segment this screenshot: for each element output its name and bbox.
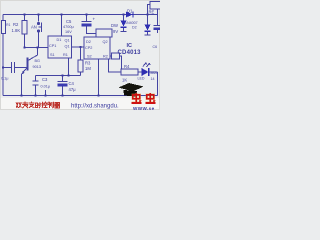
- svg-text:D1: D1: [57, 38, 62, 42]
- svg-text:CD4013: CD4013: [118, 50, 142, 56]
- wire C5 top lead: [86, 15, 88, 22]
- char 器: [55, 102, 60, 107]
- label IC2 pins: [85, 40, 108, 59]
- svg-text:BG: BG: [35, 59, 41, 63]
- svg-text:C3: C3: [42, 77, 48, 82]
- junction C5/top rail: [85, 13, 87, 15]
- svg-text:47μ: 47μ: [69, 87, 77, 92]
- svg-text:Q2: Q2: [103, 40, 108, 44]
- red logo 虫虫 (hand-drawn strokes): [131, 93, 155, 103]
- svg-text:R2: R2: [103, 55, 108, 59]
- transistor emitter with arrow: [22, 67, 28, 74]
- resistor R4: [121, 69, 138, 75]
- wire timing row: [36, 75, 81, 77]
- capacitor C4 electrolytic: [58, 81, 68, 83]
- svg-text:+: +: [93, 17, 96, 22]
- resistor R5 (box above IC2): [96, 29, 112, 37]
- svg-text:3AA: 3AA: [150, 71, 157, 75]
- black cap logo: [119, 83, 144, 92]
- transistor BG 9013 base bar: [27, 58, 29, 71]
- wire top rail right of D1: [133, 14, 158, 16]
- switch AN: [38, 23, 42, 33]
- svg-text:4700μ: 4700μ: [63, 25, 74, 29]
- junction C3/ground rail: [34, 94, 36, 96]
- svg-text:R1: R1: [63, 53, 68, 57]
- wire collector drop: [28, 48, 38, 61]
- wire D2 leads: [147, 15, 149, 35]
- LED D3: [142, 68, 149, 76]
- wire IC1 D pin to top rail: [61, 15, 63, 37]
- svg-text:9V: 9V: [113, 29, 118, 34]
- red caption 双表定时控制器 (hand-drawn strokes): [16, 102, 60, 108]
- svg-text:RE: RE: [149, 10, 155, 15]
- junction stub/ground rail: [44, 94, 46, 96]
- svg-text:0.1μ: 0.1μ: [1, 77, 8, 81]
- junction R2/top rail: [23, 13, 25, 15]
- svg-text:R4: R4: [124, 64, 130, 69]
- svg-text:http://xd.shangdu.: http://xd.shangdu.: [71, 104, 119, 110]
- svg-text:C4: C4: [69, 81, 75, 86]
- char 双: [16, 103, 21, 108]
- svg-text:16V: 16V: [65, 30, 72, 34]
- junction C4/timing wire: [61, 74, 63, 76]
- char 虫 #2: [145, 93, 155, 103]
- svg-text:D2: D2: [86, 40, 91, 44]
- wire R3 leads: [80, 58, 82, 76]
- wire left vertical rail: [2, 15, 4, 96]
- svg-text:R1: R1: [6, 23, 10, 27]
- svg-text:S1: S1: [50, 53, 55, 57]
- svg-text:AN: AN: [31, 25, 37, 30]
- junction base wire/left rail: [2, 66, 4, 68]
- svg-text:CP1: CP1: [49, 44, 56, 48]
- labels: [1, 9, 157, 93]
- char 控: [42, 102, 47, 108]
- wire C3 leads: [35, 76, 37, 96]
- svg-text:Q1: Q1: [65, 45, 70, 49]
- svg-text:R3: R3: [85, 61, 91, 66]
- svg-text:LED: LED: [138, 77, 145, 81]
- svg-text:R2: R2: [13, 22, 19, 27]
- svg-text:Q1: Q1: [65, 39, 70, 43]
- wire R5b link: [111, 56, 122, 69]
- junction AN/top rail: [37, 13, 39, 15]
- junction DW/top rail: [122, 13, 124, 15]
- junction IC1 R pin/timing wire: [67, 74, 69, 76]
- wire collector node row: [25, 47, 49, 49]
- relay RE box: [150, 2, 161, 10]
- char 时: [35, 103, 40, 108]
- capacitor C3: [33, 81, 39, 85]
- wire top rail left: [3, 14, 126, 16]
- IC box U1a: [48, 36, 72, 58]
- wire base row right of C1: [15, 67, 27, 69]
- svg-text:WWW.se: WWW.se: [133, 106, 155, 110]
- wire emitter drop: [21, 74, 23, 96]
- svg-text:IC: IC: [127, 43, 133, 49]
- wire right rail lower: [157, 72, 159, 96]
- wire IC2 S pin down: [98, 59, 100, 96]
- wire R3 tap: [80, 47, 82, 58]
- wire R4 to LED: [138, 71, 142, 73]
- zener DW: [121, 21, 127, 27]
- char 虫 #1: [131, 93, 141, 103]
- wire bottom ground rail: [3, 95, 158, 97]
- junction IC2 S pin/ground rail: [97, 94, 99, 96]
- capacitor C6: [154, 25, 161, 27]
- capacitor C5 electrolytic: [82, 21, 92, 23]
- junction IC1 D pin/top rail: [60, 13, 62, 15]
- wire stub at 45: [45, 90, 47, 96]
- svg-text:D2: D2: [132, 26, 137, 30]
- wire IC2 Q pin to R4: [109, 59, 122, 72]
- junction R2/CP1 wire: [23, 46, 25, 48]
- svg-text:1N4007: 1N4007: [125, 21, 138, 25]
- diode D2 vertical: [145, 25, 151, 31]
- svg-text:1.8K: 1.8K: [12, 28, 21, 33]
- resistor R5b small: [112, 53, 120, 59]
- label IC1 pins: [49, 38, 70, 57]
- svg-text:14: 14: [151, 77, 155, 81]
- svg-text:S2: S2: [87, 55, 92, 59]
- svg-text:0.01μ: 0.01μ: [41, 85, 51, 89]
- svg-text:D1: D1: [127, 9, 133, 14]
- resistor R2: [22, 21, 27, 35]
- diode D1 series: [126, 12, 133, 18]
- junction D2/top rail: [146, 13, 148, 15]
- char 表: [23, 102, 28, 108]
- svg-text:CP2: CP2: [85, 46, 92, 50]
- wire zener DW leads: [123, 15, 125, 32]
- svg-text:1K: 1K: [122, 78, 127, 83]
- svg-text:9013: 9013: [33, 65, 41, 69]
- resistor R1: [2, 21, 6, 34]
- wire R2 branch: [24, 15, 26, 48]
- background: [0, 0, 160, 110]
- junction C4/ground rail: [61, 94, 63, 96]
- wire IC1 R pin down: [68, 58, 70, 76]
- wire Q1bar to CP2: [72, 46, 85, 48]
- junction collector/CP1 wire: [36, 46, 38, 48]
- wire C6 branch: [157, 9, 159, 33]
- char 制: [48, 102, 53, 108]
- svg-text:DW: DW: [111, 23, 118, 28]
- wire C4 leads: [62, 76, 64, 96]
- wire base row: [3, 67, 11, 69]
- junction emitter/ground rail: [20, 94, 22, 96]
- svg-text:C6: C6: [153, 45, 158, 49]
- junction R3 tap/Q1 wire: [79, 46, 81, 48]
- char 定: [29, 102, 34, 108]
- wire AN branch: [38, 15, 40, 48]
- svg-text:C5: C5: [66, 19, 72, 24]
- wire D2 end tick: [145, 34, 151, 36]
- wire relay drop: [148, 5, 151, 15]
- capacitor C1 (series, base): [12, 62, 15, 73]
- svg-text:1M: 1M: [85, 66, 91, 71]
- wire zener end tick: [121, 31, 127, 33]
- resistor R3: [78, 60, 83, 72]
- wire LED to right rail: [149, 71, 158, 73]
- wire C5 bottom lead: [87, 27, 97, 34]
- IC box U1b: [84, 37, 110, 59]
